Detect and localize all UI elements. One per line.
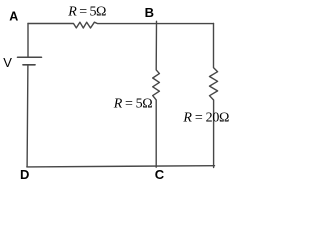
svg-text:R = 5Ω: R = 5Ω [67,4,106,19]
svg-text:D: D [20,167,29,182]
svg-text:V: V [3,55,12,70]
svg-text:C: C [155,167,165,182]
svg-text:B: B [145,5,154,20]
svg-text:A: A [9,10,18,24]
svg-text:R = 5Ω: R = 5Ω [113,97,152,112]
svg-text:R = 20Ω: R = 20Ω [182,110,229,125]
